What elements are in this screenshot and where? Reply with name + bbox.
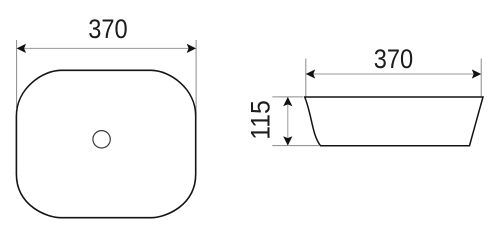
svg-text:370: 370 <box>374 44 413 74</box>
svg-text:370: 370 <box>88 14 127 44</box>
svg-text:115: 115 <box>245 100 275 139</box>
